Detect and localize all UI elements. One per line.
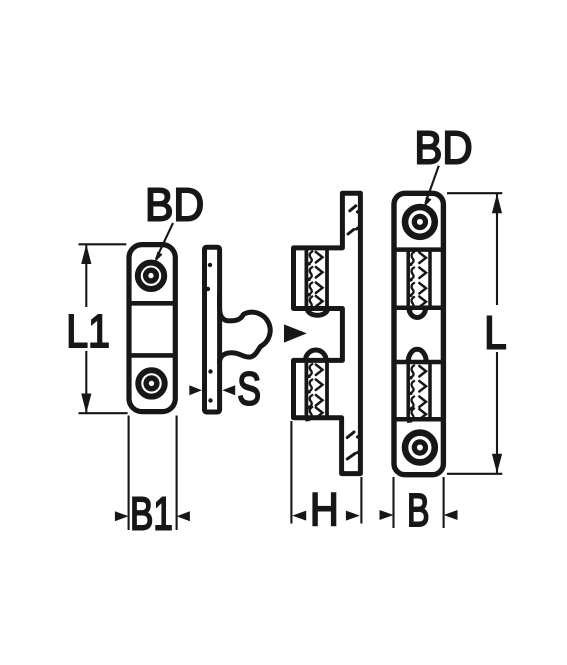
L1 dimension line upper segment bbox=[85, 244, 87, 307]
svg-text:B: B bbox=[407, 484, 430, 536]
B left arrowhead bbox=[380, 510, 394, 520]
B left extension line bbox=[392, 477, 394, 528]
upper buffer band left border (H view) bbox=[304, 249, 308, 309]
B1 right extension line bbox=[176, 416, 178, 531]
L top extension line bbox=[447, 192, 502, 194]
lower buffer band right border (B view) bbox=[428, 363, 432, 419]
left plate top hole outer ring bbox=[138, 263, 164, 289]
H right extension line bbox=[360, 477, 362, 524]
right plate top hole outer ring bbox=[405, 207, 435, 237]
upper buffer hatch squiggle (B view) bbox=[408, 252, 414, 310]
strip dot 3 bbox=[208, 369, 212, 373]
lower buffer hatch squiggle (H view) bbox=[306, 364, 312, 420]
L1 bottom extension line bbox=[79, 412, 128, 414]
BD leader arrowhead right bbox=[424, 197, 432, 208]
right plate divider 1 bbox=[392, 247, 447, 252]
L1 top extension line bbox=[79, 243, 127, 245]
svg-text:L1: L1 bbox=[66, 305, 110, 357]
L bottom arrowhead bbox=[492, 454, 502, 474]
svg-text:S: S bbox=[237, 363, 261, 415]
right plate outline (B view) bbox=[394, 193, 443, 474]
B1 right arrowhead bbox=[177, 511, 190, 521]
H left arrowhead bbox=[292, 511, 306, 521]
lower buffer hatch chevrons (B view) bbox=[419, 366, 426, 420]
plate section dash marks bottom (H view) bbox=[347, 432, 359, 459]
lower buffer band left border (H view) bbox=[304, 361, 308, 417]
svg-text:BD: BD bbox=[414, 122, 472, 174]
left plate outline bbox=[129, 245, 175, 412]
upper buffer hatch chevrons (B view) bbox=[419, 253, 426, 308]
H right arrowhead bbox=[346, 511, 360, 521]
H left extension line bbox=[290, 421, 292, 524]
left plate bottom hole outer ring bbox=[138, 370, 164, 396]
lower ball dome (B view) bbox=[408, 349, 426, 362]
L1 bottom arrowhead bbox=[81, 394, 91, 414]
svg-text:L: L bbox=[484, 306, 506, 358]
right plate divider 4 bbox=[392, 417, 447, 422]
S left arrowhead bbox=[189, 385, 202, 395]
B right arrowhead bbox=[444, 510, 458, 520]
plate section dash marks top (H view) bbox=[348, 206, 360, 234]
upper ball dome (B view) bbox=[409, 308, 426, 318]
upper buffer hatch chevrons (H view) bbox=[316, 252, 323, 307]
right plate divider 2 bbox=[392, 306, 447, 311]
right plate bottom hole outer ring bbox=[405, 433, 435, 463]
B1 left arrowhead bbox=[115, 511, 129, 521]
strip hook knob profile bbox=[220, 294, 271, 363]
strip dot 2 bbox=[206, 287, 210, 291]
left plate bottom hole inner ring bbox=[146, 378, 157, 389]
S right arrowhead bbox=[222, 385, 235, 395]
BD leader arrowhead left bbox=[155, 252, 163, 263]
left plate divider line lower bbox=[127, 353, 177, 358]
lower buffer hatch squiggle (B view) bbox=[408, 366, 414, 422]
L dimension line upper segment bbox=[496, 193, 498, 305]
upper buffer hatch squiggle (H view) bbox=[306, 252, 312, 310]
upper buffer band left border (B view) bbox=[406, 250, 410, 308]
catch body outline (H view) bbox=[294, 193, 361, 473]
L top arrowhead bbox=[492, 194, 502, 214]
L1 dimension line lower segment bbox=[85, 351, 87, 413]
upper buffer band right border (B view) bbox=[428, 250, 432, 308]
left plate top hole inner ring bbox=[146, 270, 157, 281]
L1 top arrowhead bbox=[81, 244, 91, 264]
B1 left extension line bbox=[128, 416, 130, 531]
L bottom extension line bbox=[447, 473, 502, 475]
right plate bottom hole inner ring bbox=[414, 442, 425, 453]
catch body upper ball dome (H view) bbox=[307, 309, 327, 316]
svg-text:H: H bbox=[310, 484, 339, 536]
B right extension line bbox=[443, 477, 445, 528]
left plate divider line upper bbox=[127, 301, 177, 306]
right plate top hole inner ring bbox=[414, 216, 425, 227]
lower buffer band left border (B view) bbox=[406, 363, 410, 419]
svg-text:B1: B1 bbox=[130, 487, 173, 539]
lower buffer hatch chevrons (H view) bbox=[316, 365, 323, 419]
L dimension line lower segment bbox=[496, 352, 498, 474]
strip dot 1 bbox=[208, 263, 212, 267]
right plate divider 3 bbox=[392, 360, 447, 365]
strip profile outline (S view) bbox=[205, 247, 220, 412]
svg-text:BD: BD bbox=[145, 179, 204, 231]
upper buffer band right border (H view) bbox=[325, 249, 329, 309]
catch body lower ball dome (H view) bbox=[306, 350, 327, 360]
lower buffer band right border (H view) bbox=[325, 361, 329, 417]
BD leader line left bbox=[156, 223, 173, 259]
entry direction arrow bbox=[284, 324, 307, 342]
BD leader line right bbox=[426, 166, 439, 203]
strip dot 4 bbox=[208, 398, 212, 402]
